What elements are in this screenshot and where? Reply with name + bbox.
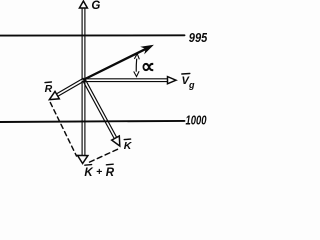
svg-text:R: R	[106, 167, 115, 177]
isobar line 1000	[0, 121, 185, 122]
deflecting (Coriolis) force arrow K shaft	[83, 80, 117, 140]
R arrowhead	[49, 91, 59, 99]
svg-text:R: R	[45, 83, 53, 95]
pressure gradient force arrow G shaft	[82, 8, 85, 80]
Vg arrowhead	[168, 77, 177, 84]
K arrowhead	[112, 136, 120, 146]
dashed construction line from K tip to resultant tip	[88, 149, 118, 163]
angle alpha indicator	[135, 55, 138, 76]
svg-text:g: g	[188, 80, 195, 90]
wind vector filled arrowhead	[140, 45, 154, 55]
isobar line 995	[0, 34, 185, 36]
dashed construction line from R tip to resultant tip	[50, 103, 76, 157]
resultant force arrow K+R shaft	[82, 81, 85, 156]
wind vector arrow (crosses isobars at angle alpha)	[84, 49, 146, 80]
svg-text:+: +	[96, 166, 102, 177]
svg-text:G: G	[91, 0, 100, 12]
geostrophic wind arrow Vg shaft	[85, 79, 169, 82]
svg-text:K: K	[84, 167, 93, 177]
G arrowhead	[79, 1, 87, 8]
svg-text:∝: ∝	[141, 56, 155, 78]
svg-text:995: 995	[189, 30, 207, 45]
resultant arrowhead	[78, 155, 88, 163]
friction force arrow R shaft	[56, 78, 85, 97]
svg-text:1000: 1000	[186, 114, 207, 128]
